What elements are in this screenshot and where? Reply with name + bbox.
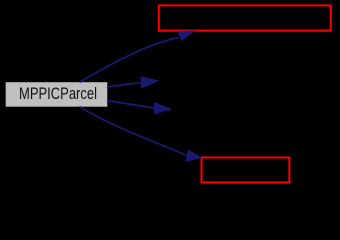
node top red box (truncated)	[159, 5, 331, 30]
wire edge 2: arrow to upper-middle hidden node	[107, 77, 158, 88]
svg-text:MPPICParcel: MPPICParcel	[19, 85, 97, 103]
wire edge 1: curve from MPPICParcel to top red box	[80, 31, 195, 82]
node MPPICParcel	[6, 82, 108, 107]
wire edge 3: arrow to lower-middle hidden node	[107, 101, 171, 114]
node bottom red box (truncated)	[202, 158, 290, 183]
wire edge 4: curve from MPPICParcel to bottom red box	[80, 107, 202, 162]
